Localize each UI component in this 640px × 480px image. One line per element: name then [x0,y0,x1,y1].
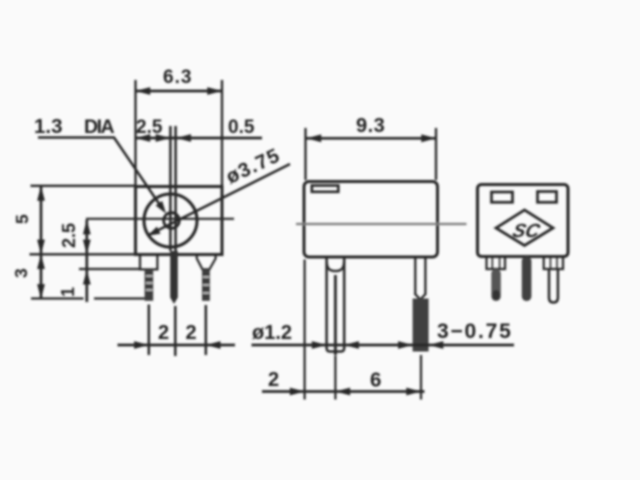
rear view body [478,185,569,257]
dim 3 line [40,254,43,299]
dim 2.5 / 0.5 line [136,137,263,140]
extension pin end left [31,297,84,299]
svg-text:ø1.2: ø1.2 [252,322,292,344]
pin 3 ribbed shaft [202,269,210,300]
svg-text:3: 3 [11,268,31,278]
svg-text:2.5: 2.5 [59,223,79,248]
svg-text:1.3: 1.3 [34,115,63,138]
rotor circle [144,194,197,247]
svg-text:2.5: 2.5 [136,117,163,138]
side pin 2 outline top [415,257,425,295]
side pin 1 collar curve [327,261,345,272]
dim 6.3 line [136,90,223,93]
pin 2 (center) solid [170,251,178,304]
svg-text:6.3: 6.3 [163,67,192,88]
pin 2 lead [174,306,177,356]
pin 1 lead [148,305,151,356]
svg-text:0.5: 0.5 [228,117,255,138]
slot line left [169,126,172,251]
dim 2 2 line [118,344,236,347]
svg-text:2: 2 [186,322,197,344]
dim 9.3 line [307,137,437,140]
rear pin 3 shaft outline [549,269,558,303]
pin 1 shoulder [140,255,157,270]
side view notch [312,186,339,192]
dim 9.3 extension left [304,128,306,180]
extension body left down [304,260,306,400]
leader 1.3 DIA [38,138,163,210]
rear pin 1 shoulder [487,257,506,270]
pin 3 shoulder [197,255,216,269]
extension pin1 center down [334,356,336,400]
dim 6.3 extension right [221,80,223,186]
dim dia1.2 / 3-0.75 line [252,344,515,347]
rear view slot left [492,192,513,202]
rotor centerline [86,218,234,220]
svg-text:9.3: 9.3 [356,115,385,137]
svg-text:6: 6 [370,369,381,392]
rear view diamond logo [496,210,553,246]
extension body top left [31,185,136,187]
side pin 2 threaded section [413,299,429,352]
slot boss circle [164,213,180,229]
dim 9.3 extension right [435,128,437,180]
svg-text:2: 2 [158,322,169,344]
side view body [304,182,438,258]
svg-text:1: 1 [58,287,78,297]
dim 2.5 rotated line [85,220,88,302]
svg-text:5: 5 [12,214,32,224]
dim 2 / 6 line [262,390,425,393]
extension shoulder line [79,268,140,270]
svg-text:DIA: DIA [84,116,115,138]
rear pin 3 shoulder [544,257,563,270]
pin 1 ribbed shaft [145,269,154,300]
dim 5 line [40,186,43,254]
rear pin 1 shaft [491,269,501,301]
rear view slot right [538,192,557,203]
pin 3 lead [205,305,208,355]
rear pin 2 [522,257,532,302]
side pin 1 outline [327,256,345,352]
side pin 2 lead [420,355,422,400]
extension body bottom left [30,253,136,255]
slot line right [174,126,177,251]
side pin 1 center line [334,275,337,355]
side view mid line [296,223,467,225]
svg-text:2: 2 [268,369,279,391]
front view body [136,187,223,255]
dim 6.3 extension left [134,80,136,186]
leader dia 3.75 [150,164,291,235]
svg-text:3−0.75: 3−0.75 [437,320,513,343]
side pin 2 transition mark [415,294,426,300]
